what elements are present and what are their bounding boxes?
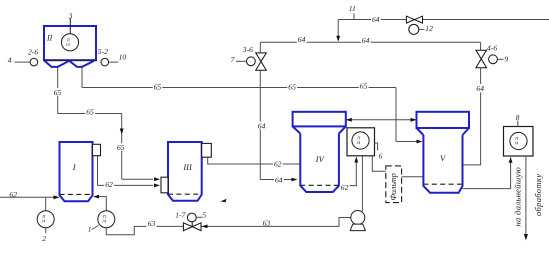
svg-text:63: 63 <box>263 218 271 227</box>
wire 65 vertical down at x396 <box>395 88 397 142</box>
tank IV level dashes <box>300 184 339 186</box>
arrow into tank IV lid <box>346 118 352 122</box>
box 6 (apparatus) <box>347 128 375 156</box>
svg-text:11: 11 <box>349 4 356 13</box>
outlet line 10 <box>109 61 119 63</box>
inlet line 4 <box>15 61 31 63</box>
svg-text:на дальнейшую: на дальнейшую <box>512 167 522 227</box>
stub label 8 <box>517 121 519 127</box>
agitator circle 3 <box>61 34 78 51</box>
svg-text:1: 1 <box>88 225 92 234</box>
wire 65 horizontal y113.5 <box>58 113 122 115</box>
leader line label 1 <box>92 226 99 230</box>
svg-text:64: 64 <box>372 15 380 24</box>
svg-text:64: 64 <box>362 36 370 45</box>
wire 63 from pump 1 bottom <box>106 226 183 234</box>
wire 62 tank IV bottom to box 6 <box>339 160 356 186</box>
svg-text:62: 62 <box>9 190 17 199</box>
arrow into tank III inlet top <box>154 177 160 181</box>
stub to label 2 <box>45 228 47 234</box>
stray arrow mark <box>221 199 227 203</box>
svg-text:7: 7 <box>231 55 236 64</box>
pump foot <box>350 224 365 231</box>
svg-text:62: 62 <box>105 180 113 189</box>
svg-text:65: 65 <box>360 81 368 90</box>
flow arrow down on x121.7 <box>120 129 124 135</box>
wire 65 into tank III inlet top <box>122 178 153 180</box>
tank V body <box>423 135 462 193</box>
pump P (centrifugal) circle <box>351 211 365 225</box>
valve 12 circle below <box>409 24 419 34</box>
wire 62 notch III to tank IV <box>208 157 301 164</box>
svg-text:65: 65 <box>54 88 62 97</box>
wire 64 down from valve 3-6 <box>259 70 261 179</box>
flow arrow toward valve 1-7 <box>202 225 208 229</box>
wire 65 from tank II right hopper down <box>81 67 83 88</box>
label gaps <box>53 16 485 227</box>
svg-text:63: 63 <box>148 219 156 228</box>
tank III body <box>168 142 202 201</box>
wire 65 from tank II left hopper down <box>57 67 59 114</box>
svg-text:IV: IV <box>315 155 325 164</box>
wire 65 long horizontal to x396 <box>82 87 396 89</box>
svg-text:II: II <box>46 34 53 43</box>
svg-text:65: 65 <box>86 108 94 117</box>
tank I body <box>60 142 93 201</box>
svg-text:8: 8 <box>516 113 520 122</box>
second wire 64 <box>260 41 480 43</box>
svg-text:14: 14 <box>41 219 45 224</box>
product line down <box>525 156 527 235</box>
tank V lid <box>417 112 470 128</box>
outlet nozzle circle 5-2 <box>101 58 109 66</box>
agitator shaft <box>69 18 71 34</box>
svg-text:3-6: 3-6 <box>242 45 253 54</box>
arrow into tank V left <box>417 140 423 144</box>
tank II hoppers <box>45 61 95 67</box>
svg-text:Фильтр: Фильтр <box>389 173 398 200</box>
wire 65 vertical x121.7 <box>121 114 123 180</box>
svg-text:обработку: обработку <box>533 174 543 216</box>
svg-text:62: 62 <box>274 159 282 168</box>
svg-text:14: 14 <box>102 219 106 224</box>
svg-text:64: 64 <box>275 176 283 185</box>
valve 12 body <box>406 16 414 23</box>
arrow up into box 6 <box>354 157 358 163</box>
svg-text:12: 12 <box>425 24 433 33</box>
filter dashed box <box>386 166 402 203</box>
valve 1-7 actuator circle <box>187 213 196 222</box>
leader to label 5 <box>196 216 202 218</box>
arrow down onto line 2 <box>336 36 340 42</box>
arrow into tank III inlet bottom <box>154 184 160 188</box>
wire 64 into tank IV left <box>260 179 292 181</box>
svg-text:4: 4 <box>8 56 12 65</box>
valve 3-6 actuator circle <box>247 57 256 66</box>
tank III inlet box <box>161 177 168 193</box>
valve 1-7 actuator stem <box>191 222 193 227</box>
wire drop x338.2 <box>337 20 339 37</box>
leader to label 12 <box>419 28 425 30</box>
svg-text:5: 5 <box>202 211 206 220</box>
control valve 1-7 body <box>183 223 192 231</box>
wire box 6 to filter <box>372 156 386 171</box>
pump circle 1 <box>98 211 115 228</box>
wire down to pump 2 <box>45 197 47 210</box>
tank IV body <box>300 134 339 193</box>
svg-text:5-2: 5-2 <box>98 47 108 56</box>
tank II body <box>44 26 96 60</box>
tank V shoulder <box>417 128 470 135</box>
tank II bottom line <box>43 59 97 61</box>
svg-text:2: 2 <box>42 234 46 243</box>
wire 65 into tank V body <box>396 141 421 143</box>
tank IV shoulder <box>293 126 346 133</box>
arrow into tank V lid <box>411 118 417 122</box>
wire pump to box 6 <box>361 156 363 211</box>
svg-text:4-6: 4-6 <box>487 43 497 52</box>
svg-text:6: 6 <box>379 151 383 160</box>
box 8 (apparatus) <box>504 127 534 157</box>
svg-text:62: 62 <box>341 183 349 192</box>
valve 4-6 actuator circle <box>489 55 498 64</box>
wire 63 valve to pump feed <box>201 218 351 227</box>
wire 62 from tank I notch down <box>97 156 99 186</box>
svg-text:III: III <box>182 163 193 172</box>
svg-text:10: 10 <box>119 53 127 62</box>
svg-text:9: 9 <box>504 55 508 64</box>
svg-text:14: 14 <box>356 140 360 145</box>
valve 3-6 body (vertical) <box>256 53 267 62</box>
arrow into tank I left <box>54 195 60 199</box>
circle in box 6 <box>352 132 369 149</box>
tank III notch <box>202 143 212 157</box>
leader to label 9 <box>497 58 503 60</box>
wire from pump 1 top into tank I right <box>99 197 106 211</box>
leader from label 7 <box>236 60 246 62</box>
wire 62 into tank III inlet bottom <box>98 184 154 186</box>
tank III level dashes <box>168 193 202 195</box>
svg-text:65: 65 <box>154 82 162 91</box>
svg-text:64: 64 <box>298 35 306 44</box>
top wire 64 <box>338 19 549 21</box>
pump circle 2 <box>37 211 54 228</box>
lid equalizing line IV-V <box>346 119 417 121</box>
arrow up into box 8 <box>509 157 513 163</box>
svg-text:64: 64 <box>476 84 484 93</box>
svg-text:65: 65 <box>288 82 296 91</box>
svg-text:65: 65 <box>117 143 125 152</box>
tank V level dashes <box>423 183 462 185</box>
valve 4-6 body (vertical) <box>476 50 487 59</box>
wire filter to tank V <box>402 176 424 178</box>
arrow into tank IV left <box>292 178 298 182</box>
svg-text:V: V <box>440 154 446 163</box>
circle in box 8 <box>510 132 527 149</box>
label 6 bracket <box>375 143 378 151</box>
svg-text:14: 14 <box>66 42 70 47</box>
arrow into tank I right <box>93 195 99 199</box>
svg-text:2-6: 2-6 <box>28 48 38 57</box>
svg-text:64: 64 <box>258 121 266 130</box>
svg-text:1-7: 1-7 <box>175 211 186 220</box>
tank I notch <box>93 144 101 155</box>
valve 3-6 branch down <box>259 42 261 53</box>
valve 4-6 branch down <box>480 42 482 50</box>
wire 62 feed from left edge <box>0 196 54 198</box>
stub stream 11 <box>353 14 355 20</box>
wire 64 tank V outlet to box 8 <box>463 160 511 189</box>
svg-text:14: 14 <box>514 141 518 146</box>
product arrow down <box>524 234 528 241</box>
wire 64 down from valve 4-6 into tank V right <box>463 68 481 165</box>
tank IV lid <box>293 112 346 127</box>
svg-text:3: 3 <box>68 11 73 20</box>
nozzle circle 2-6 <box>30 58 38 66</box>
tank I level dashes <box>60 193 93 195</box>
